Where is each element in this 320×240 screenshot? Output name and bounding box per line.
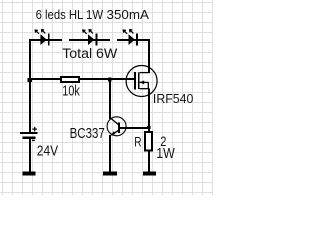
- svg-text:R: R: [134, 134, 141, 150]
- wire gate right (10k to mosfet gate): [80, 78, 135, 80]
- svg-text:Total 6W: Total 6W: [62, 45, 118, 61]
- svg-text:350mA: 350mA: [107, 7, 150, 22]
- wire drain: [148, 39, 150, 73]
- junction J3 source/base: [147, 126, 150, 129]
- wire top segment 1 (left corner to LED1): [29, 39, 62, 41]
- ground R: [143, 171, 156, 175]
- LED D3: [123, 29, 138, 45]
- svg-text:24V: 24V: [37, 143, 58, 159]
- ground battery: [23, 171, 36, 175]
- wire top segment 2 (LED2 span): [69, 39, 110, 41]
- wire source: [148, 89, 150, 132]
- junction J1 rail/gate: [28, 78, 32, 82]
- transistor Q1 BC337: [107, 117, 126, 136]
- wire R to ground: [148, 151, 150, 172]
- wire top segment 3 (LED3 span to right corner): [117, 39, 150, 41]
- battery B1: [20, 127, 38, 141]
- svg-text:BC337: BC337: [70, 124, 105, 141]
- wire battery to ground: [29, 139, 31, 172]
- wire base: [120, 127, 150, 129]
- junction J2 gate/collector: [108, 78, 112, 82]
- wire emitter to ground: [109, 135, 111, 172]
- resistor 10k box: [61, 77, 79, 82]
- wire gate left (rail to 10k): [29, 78, 61, 80]
- mosfet U1 IRF540: [126, 66, 157, 97]
- LED D2: [82, 29, 97, 45]
- svg-text:IRF540: IRF540: [153, 92, 193, 106]
- resistor R box: [145, 132, 152, 151]
- ground emitter: [103, 171, 117, 175]
- LED D1: [35, 29, 50, 45]
- svg-text:10k: 10k: [62, 82, 80, 99]
- svg-text:6 leds HL 1W: 6 leds HL 1W: [36, 7, 104, 22]
- wire collector: [109, 79, 111, 119]
- svg-text:1W: 1W: [156, 145, 175, 161]
- wire left rail: [29, 39, 31, 133]
